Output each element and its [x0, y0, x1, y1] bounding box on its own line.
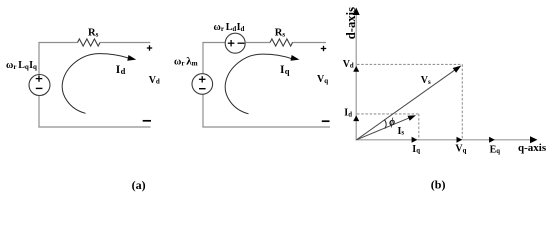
- svg-text:ωrLdId: ωrLdId: [214, 22, 245, 33]
- svg-text:Iq: Iq: [280, 64, 290, 76]
- current loop arrow Id (circuit a): [62, 54, 136, 114]
- wire: circuit (q) top wire between source and resistor: [246, 42, 270, 44]
- wire: circuit (q) top wire right of resistor: [292, 42, 326, 44]
- wire: circuit (a) left vertical upper segment: [38, 43, 40, 75]
- wire: circuit (a) top wire left of resistor: [38, 42, 77, 44]
- svg-text:ϕ: ϕ: [389, 117, 395, 128]
- resistor Rs (circuit a): [78, 28, 101, 47]
- svg-text:Id: Id: [116, 64, 126, 76]
- component arrowhead Iq on q-axis: [412, 137, 418, 143]
- wire: circuit (q) top wire left of series source: [202, 42, 225, 44]
- axis arrowhead: d-axis: [353, 8, 360, 16]
- wire: circuit (q) bottom wire: [202, 126, 330, 128]
- component arrowhead Eq on q-axis: [489, 137, 495, 143]
- component arrowhead Id on d-axis: [353, 115, 359, 121]
- dashed line: Vd level horizontal to Vs tip: [357, 63, 462, 65]
- node: circuit (a) output - terminal: [143, 120, 151, 122]
- component arrowhead Vq on q-axis: [457, 137, 463, 143]
- dashed line: Id level horizontal to Is tip: [357, 113, 419, 115]
- node: circuit (a) output + terminal: [147, 45, 152, 50]
- wire: circuit (a) bottom wire: [38, 126, 150, 128]
- angle arc phi between Is and Vs: [384, 120, 386, 129]
- voltage source (circuit a, dependent source wr*Lq*Iq): [29, 75, 50, 96]
- wire: circuit (a) left vertical lower segment: [38, 96, 40, 128]
- svg-text:q-axis: q-axis: [518, 142, 547, 154]
- dashed line: Iq vertical from Is tip to q-axis: [418, 114, 420, 140]
- axis: d-axis vertical line: [355, 12, 357, 140]
- vector Is (stator current): [357, 115, 417, 140]
- svg-text:d-axis: d-axis: [344, 7, 358, 39]
- wire: circuit (q) left vertical upper segment: [202, 43, 204, 74]
- voltage source (circuit q, series dependent source wr*Ld*Id): [225, 33, 245, 53]
- current loop arrow Iq (circuit q): [225, 54, 299, 114]
- voltage source (circuit q, back-EMF wr*lambda_m): [192, 74, 213, 95]
- svg-text:(a): (a): [132, 178, 146, 192]
- svg-text:(b): (b): [431, 178, 446, 192]
- wire: circuit (a) top wire right of resistor: [100, 42, 150, 44]
- vector Vs (stator voltage): [357, 66, 462, 140]
- node: circuit (q) output - terminal: [322, 120, 330, 122]
- component arrowhead Vd on d-axis: [353, 66, 359, 72]
- dashed line: Vq vertical from Vs tip to q-axis: [461, 64, 463, 139]
- axis arrowhead: q-axis: [530, 136, 538, 143]
- svg-text:ωrLqIq: ωrLqIq: [6, 60, 37, 71]
- axis: q-axis horizontal line: [356, 139, 533, 141]
- node: circuit (q) output + terminal: [321, 46, 326, 51]
- wire: circuit (q) left vertical lower segment: [202, 95, 204, 128]
- resistor Rs (circuit q): [270, 28, 293, 47]
